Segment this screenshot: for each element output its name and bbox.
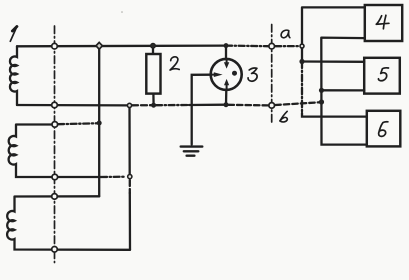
terminal circle L3 bottom	[52, 247, 58, 253]
wire: dash node b to line B	[275, 102, 319, 105]
wire: dash-dot coil2 bottom link to V2 node	[101, 176, 126, 179]
resistor R2 stub top	[152, 46, 154, 54]
label 4	[376, 15, 389, 28]
box 4	[365, 5, 402, 41]
wire: dash-dot link node a to line A	[275, 45, 299, 47]
wire: line A dash-dot lower part	[301, 62, 303, 114]
wire: box5 upper feed from line A dot	[302, 60, 364, 63]
meter P3 top arrow	[226, 59, 228, 63]
label 2	[170, 57, 179, 70]
inductor L3 coil 3	[7, 196, 130, 250]
wire: line B vertical with box4 lower feed	[321, 38, 367, 145]
meter P3 bottom arrow	[226, 85, 228, 89]
wire: main top bus y=46	[17, 44, 226, 47]
wire: dash-dot link meter-top to node a	[226, 44, 268, 47]
box 6	[367, 111, 401, 147]
label 3	[248, 68, 257, 81]
junction node V1 top (diamond)	[96, 42, 102, 49]
terminal circle L2 top	[52, 122, 58, 128]
junction dot meter bottom	[224, 102, 229, 107]
resistor R2 body	[146, 54, 160, 94]
node circle V2 top	[127, 103, 131, 107]
node circle line A at a-level	[300, 44, 304, 48]
node b terminal circle	[269, 103, 275, 109]
terminal circle L3 top	[52, 194, 58, 200]
terminal circle L1 bottom	[52, 102, 58, 108]
meter P3 left arrow	[211, 74, 214, 76]
junction dot line A box5 feed	[299, 59, 304, 64]
wire: dash meter bottom to node b	[229, 104, 269, 107]
wire: line A corner to box6 top	[302, 113, 367, 117]
wire: line A vertical top (box4 upper feed)	[302, 7, 365, 61]
label 5	[378, 68, 388, 81]
resistor R2 stub bottom	[152, 94, 155, 105]
label 1	[10, 27, 17, 42]
junction dot line B box5 feed	[319, 88, 324, 93]
scan speck	[121, 11, 123, 13]
label a	[281, 30, 290, 38]
meter P3 body circle	[211, 59, 242, 90]
node circle V2 mid	[128, 175, 132, 179]
meter P3 left lead to ground	[192, 75, 211, 145]
junction dot resistor bottom	[151, 103, 156, 108]
wire: box5 lower feed from line B dot	[322, 89, 365, 91]
meter P3 bottom lead	[225, 90, 228, 105]
meter P3 contact dot	[232, 71, 237, 76]
junction dot V1 coil2 link	[97, 121, 102, 126]
dash-dot axis line through left terminals x=54.5	[54, 26, 56, 263]
wire: coil1 bottom to V2 (y=105)	[17, 104, 127, 107]
wire: solid ground crossing to meter bottom	[189, 104, 226, 107]
ground symbol	[181, 147, 203, 156]
wire: vertical V2 x=129.5 solid part	[128, 105, 130, 176]
wire: dash-dot coil2 top link to V1	[58, 122, 97, 125]
dash-dot axis line through a,b x=271.7	[271, 25, 273, 123]
wire: vertical V2 dashed gap	[129, 180, 131, 193]
inductor L2 coil 2	[9, 125, 101, 178]
box 5	[364, 58, 400, 94]
junction dot meter top	[224, 43, 229, 48]
wire: dash M node129 to resistor bottom	[132, 104, 151, 106]
wire: dash-dot resistor bottom to ground crossing	[156, 104, 189, 106]
node a terminal circle	[269, 43, 275, 49]
label b	[280, 111, 287, 122]
label 6	[379, 122, 388, 137]
wire: vertical V2 lower solid to coil3 bottom	[129, 193, 131, 250]
junction dot line B b-link	[319, 99, 324, 104]
junction node resistor top	[151, 43, 156, 48]
terminal circle L1 top	[52, 43, 58, 49]
wire: vertical V1 x=99 top bus to coil3 top	[98, 46, 100, 197]
inductor L1 coil 1	[10, 46, 17, 105]
terminal circle L2 bottom	[52, 174, 58, 180]
meter P3 top lead	[225, 46, 227, 59]
